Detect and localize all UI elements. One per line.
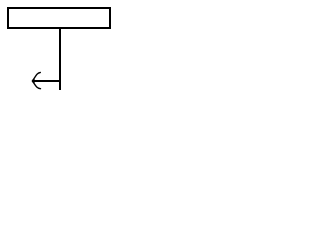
arrowhead (open curved, pointing left) — [33, 73, 41, 89]
wire (horizontal arrow shaft) — [33, 80, 60, 82]
box (rectangle node) — [8, 8, 110, 28]
wire (vertical line from box bottom) — [59, 28, 61, 90]
arrowhead tip knob — [32, 79, 35, 83]
